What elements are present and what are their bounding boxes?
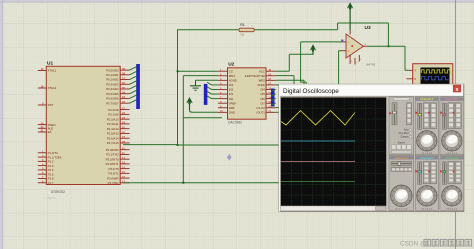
svg-text:Channel C: Channel C [420, 156, 433, 160]
mini yellow squarewave [422, 70, 453, 73]
power arrow above U3 [349, 8, 351, 30]
svg-text:P3.1/TXD: P3.1/TXD [106, 153, 119, 157]
svg-text:P2.0/A8: P2.0/A8 [108, 108, 119, 112]
svg-text:DI5: DI5 [260, 92, 265, 96]
editor border left [0, 0, 3, 249]
svg-text:WR2: WR2 [259, 78, 266, 82]
svg-text:P2.5/A13: P2.5/A13 [107, 132, 119, 136]
svg-text:RFB: RFB [229, 106, 235, 110]
svg-text:DI2: DI2 [229, 88, 234, 92]
wire B P3.7 long [123, 182, 280, 184]
bus entries U2 DI0-3 [207, 82, 211, 85]
svg-text:U2: U2 [228, 62, 234, 68]
wire CS to V1 [178, 70, 218, 72]
watermark [400, 239, 472, 247]
oscilloscope component box [413, 64, 453, 85]
U1 right pins [120, 69, 129, 71]
svg-text:P1.7: P1.7 [48, 181, 54, 185]
svg-text:Cursors: Cursors [400, 135, 409, 138]
svg-text:U1: U1 [47, 61, 53, 67]
svg-text:CS: CS [229, 69, 233, 73]
svg-text:Channel B: Channel B [445, 97, 458, 101]
wire pin2 down (to DAC IOUT behind window) [300, 42, 302, 82]
wire arrow to DGND pin [192, 111, 218, 113]
svg-text:P0.3/AD3: P0.3/AD3 [106, 82, 119, 86]
svg-text:DI7: DI7 [260, 101, 265, 105]
svg-text:P3.0/RXD: P3.0/RXD [106, 148, 119, 152]
svg-text:5 2 1 .5 .2 .1: 5 2 1 .5 .2 .1 [421, 209, 433, 211]
svg-text:+: + [347, 50, 349, 54]
svg-text:XTAL1: XTAL1 [48, 69, 57, 73]
junction output node [388, 45, 390, 47]
junction J2 [182, 182, 184, 184]
svg-text:P0.0/AD0: P0.0/AD0 [106, 68, 119, 72]
U3 pin 3 non-inverting wire [341, 50, 346, 52]
mini blue squarewave [422, 77, 449, 80]
channel D trace [281, 181, 355, 183]
svg-text:IOUT1: IOUT1 [257, 110, 266, 114]
svg-text:DAC0832: DAC0832 [228, 121, 242, 125]
svg-text:B: B [414, 77, 416, 81]
control panel background [387, 96, 463, 210]
svg-text:R1: R1 [240, 23, 245, 27]
svg-text:P0.4/AD4: P0.4/AD4 [106, 87, 119, 91]
U3 output pin [363, 45, 368, 47]
svg-text:P3.3/INT1: P3.3/INT1 [106, 162, 119, 166]
svg-text:A: A [414, 69, 416, 73]
svg-text:U3: U3 [365, 25, 371, 31]
section Channel C [415, 155, 438, 210]
wire WR1 [183, 75, 218, 77]
oscilloscope mini screen [421, 68, 450, 85]
svg-text:P0.5/AD5: P0.5/AD5 [106, 92, 119, 96]
svg-text:DI0: DI0 [229, 97, 234, 101]
channel A triangle wave [281, 111, 355, 125]
svg-text:P0.7/AD7: P0.7/AD7 [106, 101, 119, 105]
wire XFER stub [276, 84, 280, 86]
power arrow (VCC) [310, 44, 317, 51]
section Horizontal [389, 155, 414, 210]
svg-text:XTAL2: XTAL2 [48, 86, 57, 90]
svg-text:P2.6/A14: P2.6/A14 [107, 136, 119, 140]
U2 right pins [266, 70, 276, 72]
svg-text:P0.1/AD1: P0.1/AD1 [106, 73, 119, 77]
svg-text:ms .5 .2 .1 us: ms .5 .2 .1 us [395, 209, 407, 211]
svg-text:DI3: DI3 [229, 83, 234, 87]
editor border top [0, 0, 474, 2]
close button [453, 85, 461, 92]
ground symbol [195, 80, 197, 86]
section Channel B [440, 97, 464, 155]
scope screen [281, 97, 387, 206]
origin marker [227, 154, 232, 161]
channel C trace [281, 161, 355, 163]
wire DGND loop [183, 117, 222, 119]
wire output to scope A [404, 46, 406, 70]
bus P0 (U1) [136, 64, 140, 109]
svg-text:VCC: VCC [259, 69, 265, 73]
svg-text:P2.3/A11: P2.3/A11 [107, 122, 119, 126]
svg-text:IOUT2: IOUT2 [257, 106, 266, 110]
junction on V1 [177, 70, 179, 72]
U1 left pins [38, 70, 47, 72]
wire pin3 down to gnd (behind window) [338, 51, 340, 85]
wire top horizontal to R1 [177, 29, 239, 31]
svg-text:P3.4/T0: P3.4/T0 [108, 167, 119, 171]
U3 V+ pin 7 [349, 30, 351, 35]
svg-text:P2.2/A10: P2.2/A10 [107, 117, 119, 121]
oscilloscope window frame [279, 84, 464, 211]
svg-text:P2.7/A15: P2.7/A15 [107, 141, 119, 145]
screen bottom scrollbar [281, 206, 387, 211]
wire R1 right [255, 29, 338, 31]
U3 bottom pins 4,1,5 [349, 55, 351, 64]
section Channel A [415, 97, 438, 155]
scope pin B [407, 78, 413, 80]
svg-text:XFER: XFER [257, 83, 264, 87]
channel B trace [281, 140, 355, 142]
svg-text:Auto: Auto [404, 128, 409, 131]
svg-text:Source: Source [398, 141, 406, 144]
junction J1 [177, 144, 179, 146]
svg-text:GND: GND [229, 110, 235, 114]
power arrow (VREF) [186, 97, 193, 104]
svg-text:P0.2/AD2: P0.2/AD2 [106, 78, 119, 82]
wire VCC up to power arrow [276, 70, 290, 72]
svg-text:WR1: WR1 [229, 74, 236, 78]
wire A P2.7 to RFB row [123, 144, 178, 146]
svg-text:x: x [456, 87, 459, 93]
svg-text:RST: RST [48, 103, 54, 107]
svg-text:EA: EA [48, 130, 52, 134]
svg-text:P0.6/AD6: P0.6/AD6 [106, 97, 119, 101]
svg-text:ILE/BYTE1/BYTE2: ILE/BYTE1/BYTE2 [245, 75, 266, 78]
svg-text:AT89C52: AT89C52 [51, 190, 65, 194]
svg-text:Channel D: Channel D [445, 156, 458, 160]
resistor R1 [239, 28, 254, 32]
svg-text:5 2 1 .5 .2 .1: 5 2 1 .5 .2 .1 [446, 153, 458, 155]
bus DI0-3 (U2 left) [204, 84, 208, 105]
svg-text:P3.6/WR: P3.6/WR [107, 176, 119, 180]
probe marker [341, 40, 343, 42]
svg-text:CSDN @: CSDN @ [400, 241, 426, 248]
svg-text:5 2 1 .5 .2 .1: 5 2 1 .5 .2 .1 [446, 209, 458, 211]
svg-text:<TEXT>: <TEXT> [46, 196, 57, 200]
wire feedback step-up [337, 23, 339, 30]
svg-text:VREF: VREF [229, 101, 237, 105]
wire AGND to ground [196, 79, 218, 81]
graticule [281, 97, 387, 206]
svg-text:−: − [347, 40, 349, 44]
wire ILE down [276, 75, 294, 77]
svg-text:P3.2/INT0: P3.2/INT0 [106, 157, 119, 161]
wire IOUT2 stub [276, 107, 280, 109]
bus DI4-7 (U2 right) [271, 89, 275, 107]
wire IOUT1 stub [276, 111, 280, 113]
sheet border line [455, 0, 457, 249]
U3 pin 2 inverting input wire [341, 41, 346, 43]
svg-text:P3.7/RD: P3.7/RD [108, 181, 119, 185]
svg-text:P2.4/A12: P2.4/A12 [107, 127, 119, 131]
op-amp U3 UA741 [346, 34, 363, 58]
bus entries U1 P0 [130, 67, 137, 70]
svg-text:P2.1/A9: P2.1/A9 [108, 113, 119, 117]
svg-text:DI6: DI6 [260, 97, 265, 101]
section Channel D [440, 155, 464, 210]
ic U2 DAC0832 [228, 68, 267, 119]
scope pin A [408, 69, 413, 71]
svg-text:DI4: DI4 [260, 88, 265, 92]
svg-text:Digital Oscilloscope: Digital Oscilloscope [283, 88, 339, 95]
svg-text:5 2 1 .5 .2 .1: 5 2 1 .5 .2 .1 [421, 153, 433, 155]
svg-text:UA741: UA741 [366, 63, 376, 67]
svg-text:DI1: DI1 [229, 92, 234, 96]
svg-text:One-Shot: One-Shot [399, 132, 409, 135]
svg-text:Channel A: Channel A [420, 97, 433, 101]
svg-text:P3.5/T1: P3.5/T1 [108, 172, 119, 176]
svg-text:AGND: AGND [229, 78, 237, 82]
window title bar [280, 85, 463, 96]
wire WR2 down [276, 79, 304, 81]
wire V2 vertical [182, 76, 184, 183]
svg-text:Horizontal: Horizontal [395, 156, 408, 160]
U2 left pins [218, 70, 228, 72]
ic U1 AT89C52 [46, 66, 120, 184]
wire V1 vertical [177, 30, 179, 145]
section Trigger [389, 97, 414, 155]
